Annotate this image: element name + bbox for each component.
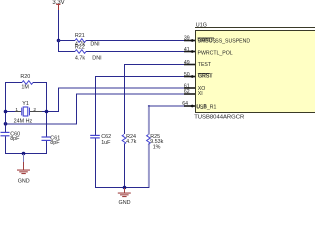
svg-text:2: 2 bbox=[33, 107, 36, 113]
svg-text:41: 41 bbox=[184, 47, 190, 53]
wire USB_R1 net horizontal bbox=[148, 105, 185, 107]
label R22 bbox=[75, 45, 85, 51]
wire crystal box top left bbox=[5, 82, 22, 83]
pin 61 stub bbox=[184, 87, 195, 89]
part number TUSB8044ARGCR bbox=[194, 115, 244, 121]
pin number 64 bbox=[182, 101, 188, 107]
pin number 1 (Y1) bbox=[15, 107, 18, 113]
value 1uF bbox=[101, 140, 111, 146]
resistor R24 bbox=[122, 135, 126, 145]
svg-text:DNI: DNI bbox=[92, 55, 101, 61]
wire XO net vertical bbox=[58, 88, 59, 112]
svg-text:24M Hz: 24M Hz bbox=[14, 118, 33, 124]
value 8pF (C60) bbox=[10, 136, 20, 142]
wire R24 to rail bbox=[124, 144, 125, 188]
wire crystal box left vertical bbox=[5, 82, 6, 132]
power symbol 3.3V bbox=[52, 0, 64, 10]
wire XI to crystal left node bbox=[5, 123, 77, 125]
svg-text:GND: GND bbox=[18, 178, 30, 184]
pin number 50 bbox=[184, 72, 190, 78]
pin 64 stub bbox=[184, 105, 195, 108]
pin name XI bbox=[198, 91, 203, 97]
svg-text:39: 39 bbox=[184, 35, 190, 41]
ground center bbox=[118, 188, 131, 206]
svg-text:GRST: GRST bbox=[198, 73, 213, 79]
pin 62 stub bbox=[184, 93, 195, 95]
wire crystal row left bbox=[5, 111, 15, 112]
value 24M Hz bbox=[14, 118, 33, 124]
svg-text:U1G: U1G bbox=[196, 23, 207, 29]
node junction crystal right bbox=[45, 110, 49, 114]
svg-text:PWRCTL_POL: PWRCTL_POL bbox=[198, 50, 233, 56]
svg-text:64: 64 bbox=[182, 101, 188, 107]
wire crystal row right bbox=[42, 111, 47, 112]
resistor R21 bbox=[75, 39, 86, 43]
pin number 61 bbox=[184, 83, 190, 89]
value 4.7k DNI (R22) bbox=[75, 55, 102, 61]
pin number 62 bbox=[184, 89, 190, 95]
svg-text:8pF: 8pF bbox=[50, 140, 60, 146]
svg-text:4.7k: 4.7k bbox=[126, 139, 136, 145]
ground left bbox=[17, 162, 30, 184]
wire XO to crystal right node bbox=[46, 111, 59, 112]
value 9.53k bbox=[150, 139, 163, 145]
pin number 41 bbox=[184, 47, 190, 53]
svg-text:1%: 1% bbox=[153, 145, 161, 151]
label R20 bbox=[20, 74, 30, 80]
refdes U1G bbox=[196, 23, 207, 29]
wire R21 to pin 39 bbox=[86, 40, 184, 41]
value 1M bbox=[21, 84, 29, 90]
wire left ground rail bbox=[5, 153, 47, 154]
wire C62 to rail bbox=[95, 139, 96, 188]
wire 3.3V vertical bbox=[58, 10, 59, 40]
svg-text:TUSB8044ARGCR: TUSB8044ARGCR bbox=[194, 115, 244, 121]
label Y1 bbox=[22, 101, 29, 107]
pin name SMBUS/SS_SUSPEND bbox=[198, 38, 251, 45]
resistor R20 bbox=[22, 81, 33, 85]
svg-text:TEST: TEST bbox=[198, 62, 212, 68]
value 8pF (C61) bbox=[50, 140, 60, 146]
pin 41 stub bbox=[184, 50, 195, 53]
wire R25 to rail bbox=[148, 144, 150, 188]
label C62 bbox=[101, 134, 111, 140]
svg-text:U_B: U_B bbox=[197, 104, 208, 110]
pin name USB_R1 bbox=[196, 104, 216, 111]
wire crystal box top right bbox=[33, 82, 47, 83]
capacitor C60 bbox=[1, 132, 10, 137]
svg-text:50: 50 bbox=[184, 72, 190, 78]
svg-text:62: 62 bbox=[184, 89, 190, 95]
wire C60 to rail bbox=[5, 136, 6, 153]
svg-text:DNI: DNI bbox=[90, 41, 99, 47]
svg-text:8pF: 8pF bbox=[10, 136, 20, 142]
pin name XO bbox=[198, 86, 206, 92]
resistor R22 bbox=[75, 50, 86, 54]
label C61 bbox=[50, 136, 60, 142]
node junction 3.3V/R21/R22 bbox=[57, 39, 61, 43]
label C60 bbox=[10, 132, 20, 138]
wire junction down to R22 row bbox=[58, 40, 59, 52]
pin name GRST bbox=[198, 73, 214, 80]
svg-text:GND: GND bbox=[119, 200, 131, 206]
node junction crystal left bbox=[4, 110, 8, 114]
svg-text:R20: R20 bbox=[20, 74, 30, 80]
wire to R22 bbox=[58, 51, 75, 52]
IC U1 body bbox=[195, 27, 315, 113]
pin 50 stub bbox=[184, 75, 195, 78]
capacitor C62 bbox=[90, 135, 100, 139]
svg-text:1: 1 bbox=[15, 107, 18, 113]
wire R22 to pin 41 bbox=[86, 51, 184, 52]
wire crystal box right vertical bbox=[46, 82, 47, 137]
svg-text:1M: 1M bbox=[21, 84, 29, 90]
label R25 bbox=[150, 134, 160, 140]
pin 49 stub bbox=[184, 64, 195, 66]
label R24 bbox=[126, 134, 136, 140]
value 1% bbox=[153, 145, 161, 151]
node junction center rail bbox=[123, 186, 127, 190]
pin number 39 bbox=[184, 35, 190, 41]
wire C61 to rail bbox=[46, 141, 47, 154]
resistor R25 bbox=[147, 135, 151, 145]
svg-text:1uF: 1uF bbox=[101, 140, 111, 146]
svg-text:C62: C62 bbox=[101, 134, 111, 140]
svg-text:R22: R22 bbox=[75, 45, 85, 51]
wire XI net horizontal bbox=[76, 93, 184, 95]
pin name PWRCTL_POL bbox=[198, 50, 233, 56]
pin name TEST bbox=[198, 62, 212, 68]
wire GRST net horizontal bbox=[95, 76, 184, 77]
label R21 bbox=[75, 33, 85, 39]
svg-text:,SS_SUSPEND: ,SS_SUSPEND bbox=[214, 39, 251, 45]
wire XI net vertical bbox=[76, 94, 77, 124]
wire GRST net vertical to C62 bbox=[95, 76, 96, 135]
value 4.7k DNI (R21) bbox=[75, 41, 100, 47]
svg-text:49: 49 bbox=[184, 60, 190, 66]
svg-text:GANG: GANG bbox=[198, 38, 213, 44]
wire to R21 bbox=[58, 40, 75, 41]
capacitor C61 bbox=[42, 136, 51, 141]
pin number 49 bbox=[184, 60, 190, 66]
wire center ground rail bbox=[95, 187, 149, 188]
wire XO net horizontal bbox=[58, 87, 184, 89]
svg-text:XI: XI bbox=[198, 91, 203, 97]
node junction left rail bbox=[22, 152, 26, 156]
pin 39 stub bbox=[184, 39, 195, 42]
value 4.7k (R24) bbox=[126, 139, 136, 145]
wire stub to left GND bbox=[23, 154, 24, 162]
pin number 2 (Y1) bbox=[33, 107, 36, 113]
svg-text:4.7k: 4.7k bbox=[75, 55, 85, 61]
wire TEST net horizontal bbox=[124, 64, 184, 65]
svg-text:Y1: Y1 bbox=[22, 101, 29, 107]
wire USB_R1 vertical to R25 bbox=[148, 105, 150, 135]
node junction XI/left rail bbox=[4, 122, 8, 126]
crystal Y1 bbox=[15, 107, 42, 116]
wire TEST net vertical to R24 bbox=[124, 64, 125, 134]
svg-text:R21: R21 bbox=[75, 33, 85, 39]
